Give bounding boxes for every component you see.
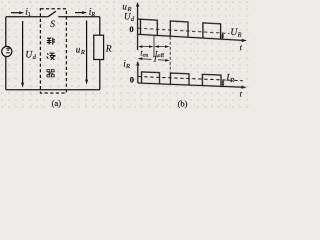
t axis (uR plot) bbox=[138, 34, 244, 40]
uR square wave bbox=[141, 19, 221, 39]
svg-text:(a): (a) bbox=[52, 98, 62, 108]
svg-text:(b): (b) bbox=[178, 98, 188, 108]
chopper dashed box bbox=[40, 9, 66, 93]
svg-text:R: R bbox=[80, 49, 85, 56]
voltage arrow Ud bbox=[22, 21, 24, 84]
svg-text:t: t bbox=[240, 42, 243, 52]
uR axis vertical bbox=[137, 4, 139, 50]
iR axis vertical bbox=[137, 63, 139, 83]
T dimension arrows bbox=[139, 59, 168, 61]
switch S blade bbox=[48, 11, 56, 17]
UR average height marker bbox=[222, 34, 224, 38]
svg-text:1: 1 bbox=[28, 12, 31, 18]
voltage source plus sign bbox=[6, 47, 10, 51]
wire top-right horizontal bbox=[58, 16, 99, 18]
current arrow iR bbox=[75, 12, 84, 14]
svg-text:0: 0 bbox=[130, 74, 134, 84]
ton tick line bbox=[153, 36, 155, 57]
voltage source minus sign bbox=[6, 52, 10, 54]
svg-text:R: R bbox=[125, 63, 130, 70]
UR average dashed line bbox=[138, 28, 229, 33]
current arrow i1 bbox=[11, 12, 21, 14]
ton dimension arrows bbox=[138, 45, 170, 61]
wire left vertical (lower) bbox=[5, 56, 7, 89]
svg-text:d: d bbox=[33, 54, 37, 61]
IR average dashed line bbox=[138, 77, 243, 81]
voltage arrow uR bbox=[86, 21, 88, 81]
svg-text:t: t bbox=[240, 89, 243, 99]
svg-text:0: 0 bbox=[129, 24, 133, 34]
svg-text:on: on bbox=[143, 53, 149, 59]
voltage source Ud circle bbox=[2, 46, 12, 56]
wire top-left horizontal bbox=[6, 16, 48, 18]
toff dimension arrows bbox=[156, 46, 168, 48]
svg-text:R: R bbox=[229, 77, 234, 84]
wire left vertical (upper) bbox=[5, 17, 7, 47]
chopper chinese char zhan bbox=[47, 38, 55, 77]
resistor R body bbox=[94, 35, 104, 59]
period guideline bbox=[169, 37, 171, 73]
svg-text:S: S bbox=[50, 20, 55, 30]
t axis (iR plot) bbox=[138, 83, 243, 87]
svg-text:d: d bbox=[131, 16, 135, 23]
chopper chinese char bo bbox=[47, 53, 55, 60]
svg-text:R: R bbox=[237, 31, 242, 38]
svg-text:R: R bbox=[105, 45, 112, 55]
svg-text:R: R bbox=[90, 12, 95, 18]
svg-text:off: off bbox=[158, 52, 164, 59]
wire bottom horizontal bbox=[6, 89, 100, 91]
wire right vertical (upper) bbox=[99, 17, 101, 35]
chopper chinese char qi bbox=[47, 70, 54, 77]
IR average height marker bbox=[222, 81, 224, 85]
Ud level tick bbox=[138, 18, 141, 20]
wire right vertical (lower) bbox=[99, 60, 101, 90]
iR square wave bbox=[142, 72, 222, 86]
